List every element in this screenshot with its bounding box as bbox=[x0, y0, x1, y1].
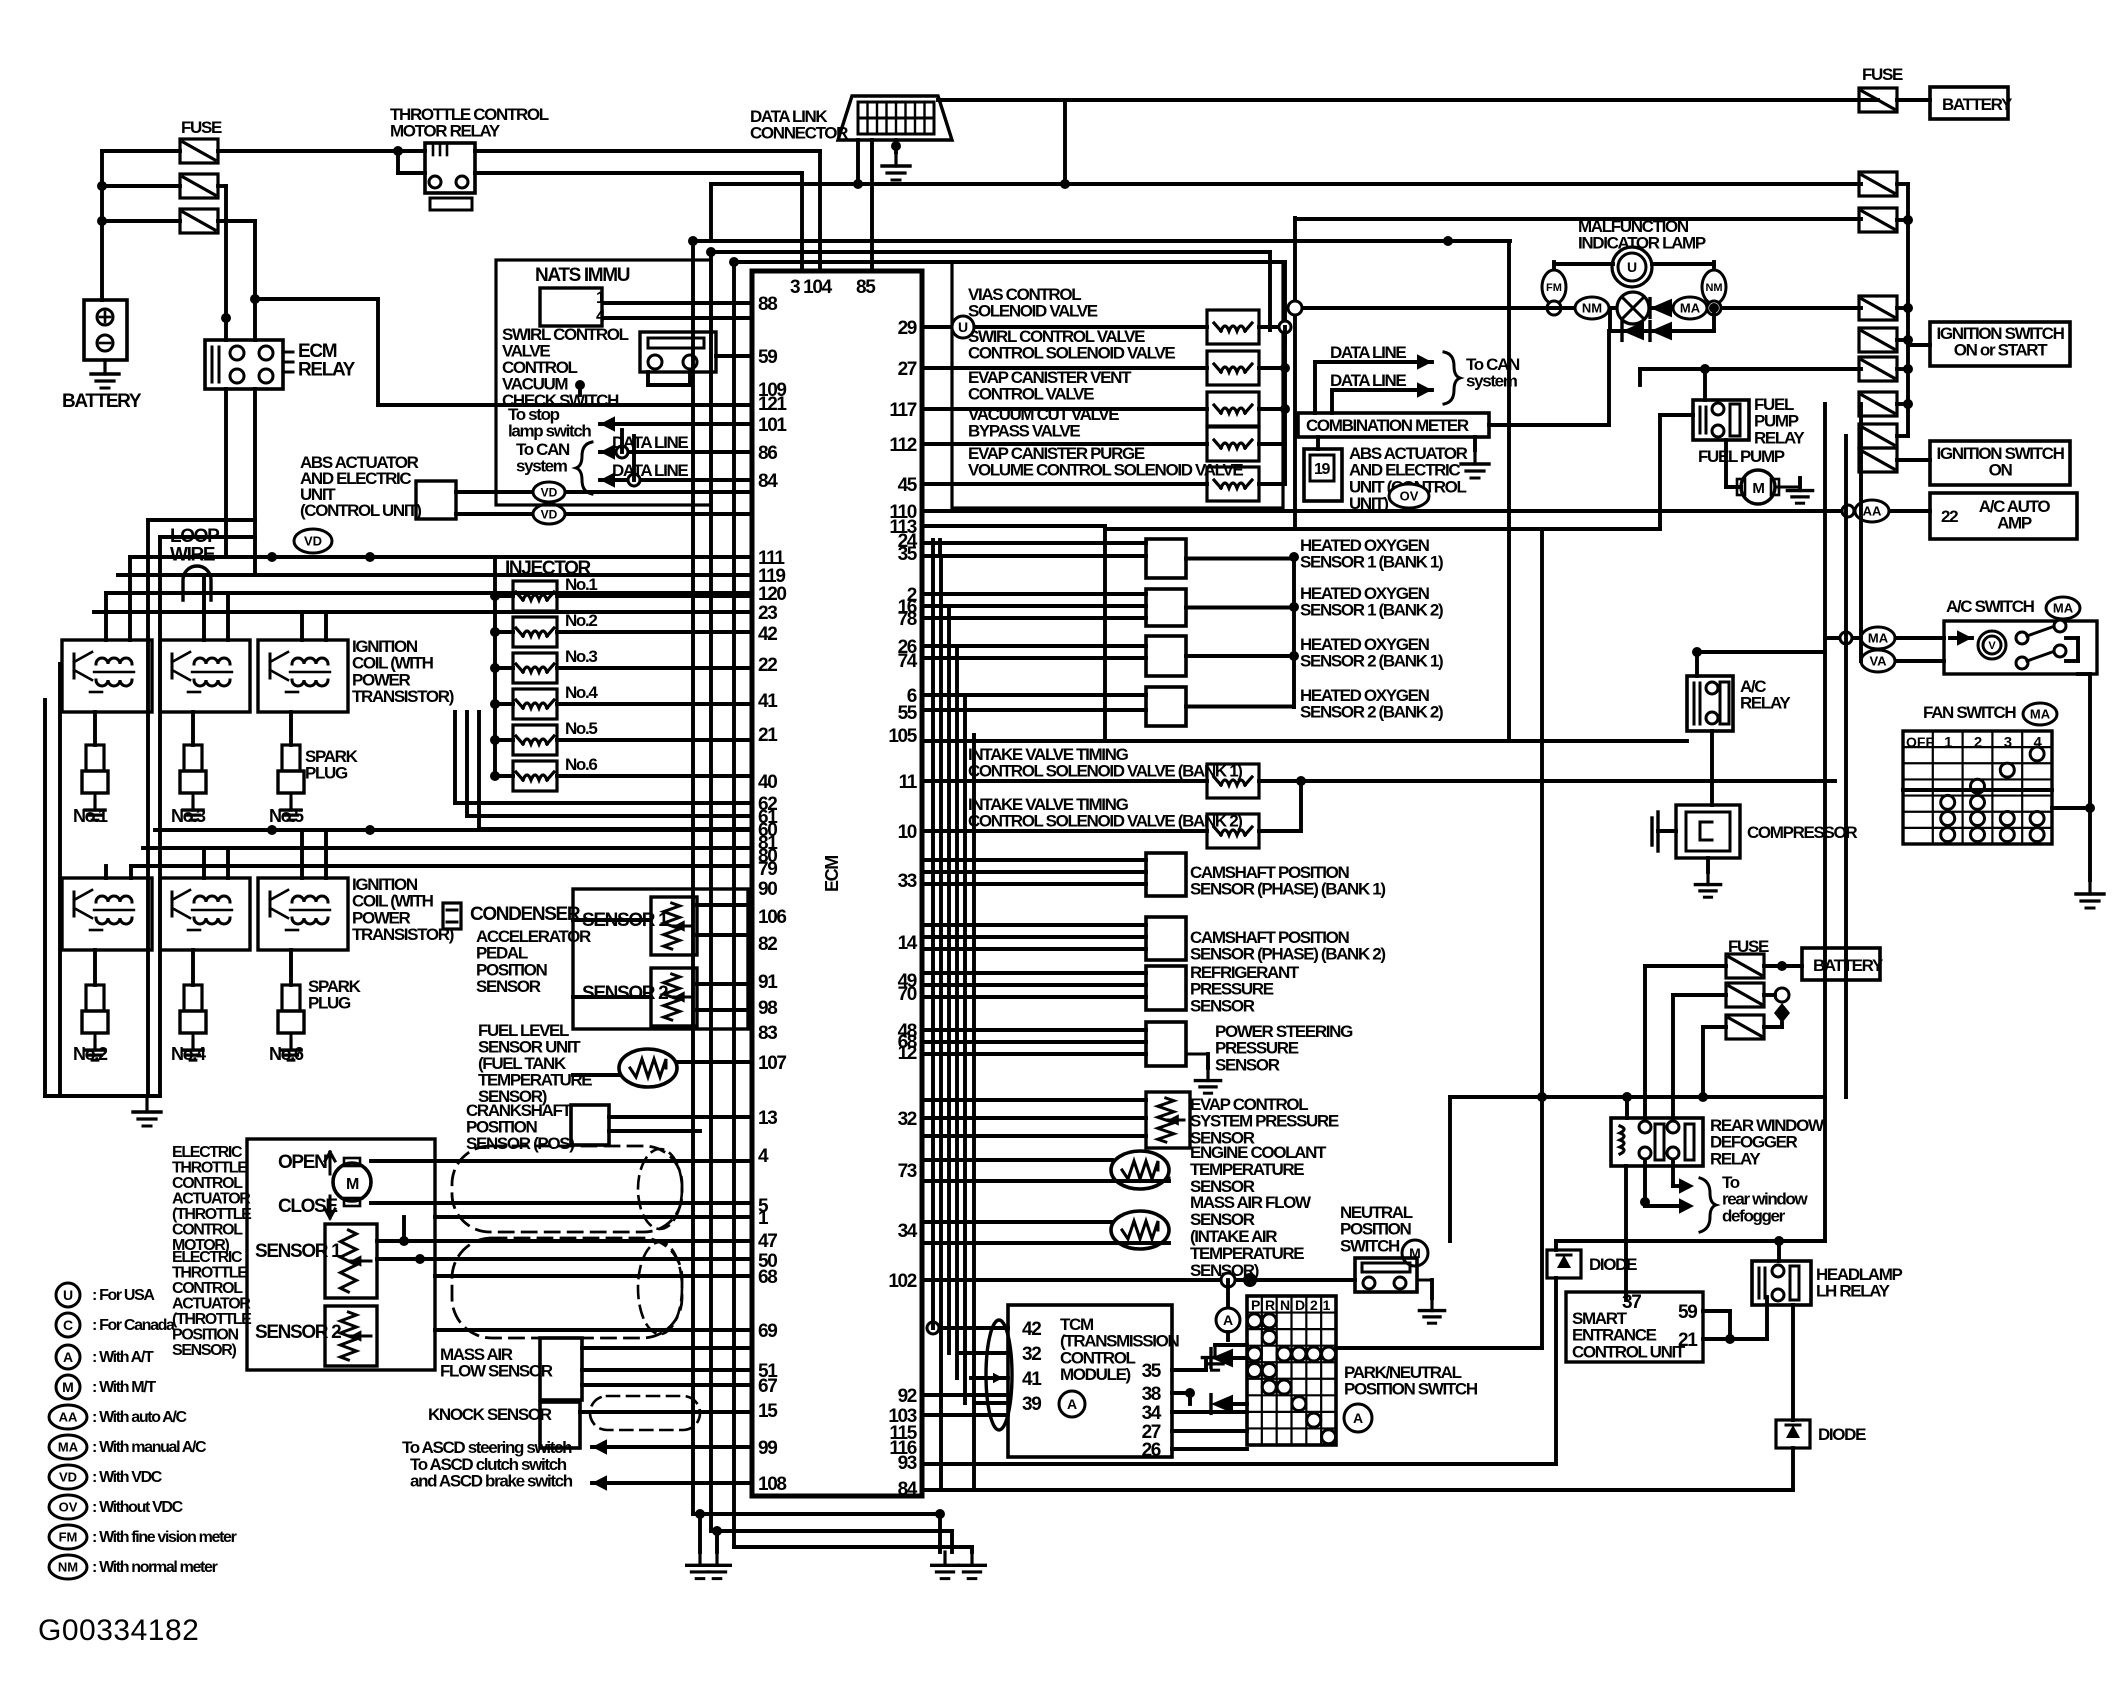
svg-text:SENSOR 2: SENSOR 2 bbox=[582, 983, 668, 1004]
svg-text:U: U bbox=[1627, 259, 1637, 275]
svg-text:SWITCH: SWITCH bbox=[1340, 1236, 1400, 1255]
svg-text:SENSOR (POS): SENSOR (POS) bbox=[466, 1134, 574, 1153]
svg-text:RELAY: RELAY bbox=[1710, 1149, 1761, 1168]
svg-text:No.3: No.3 bbox=[171, 806, 206, 826]
svg-text:: Without VDC: : Without VDC bbox=[92, 1499, 184, 1516]
svg-text:No.2: No.2 bbox=[73, 1044, 108, 1064]
svg-text:SENSOR: SENSOR bbox=[476, 977, 541, 996]
svg-text:101: 101 bbox=[758, 415, 787, 436]
svg-text:3: 3 bbox=[2004, 734, 2012, 751]
svg-text:No.5: No.5 bbox=[269, 806, 304, 826]
svg-text:83: 83 bbox=[758, 1023, 777, 1044]
svg-text:UNIT): UNIT) bbox=[1349, 494, 1388, 513]
svg-text:CONNECTOR: CONNECTOR bbox=[750, 124, 848, 143]
svg-text:FUSE: FUSE bbox=[1862, 65, 1903, 84]
svg-text:106: 106 bbox=[758, 907, 786, 928]
svg-text:29: 29 bbox=[898, 318, 917, 339]
svg-text:OV: OV bbox=[1400, 489, 1419, 504]
svg-text:12: 12 bbox=[898, 1043, 917, 1064]
svg-text:15: 15 bbox=[758, 1401, 778, 1422]
svg-text:13: 13 bbox=[758, 1108, 777, 1129]
svg-text:POSITION SWITCH: POSITION SWITCH bbox=[1344, 1380, 1478, 1399]
svg-text:M: M bbox=[1752, 480, 1764, 497]
svg-text:NM: NM bbox=[1705, 282, 1722, 294]
svg-text:SENSOR): SENSOR) bbox=[172, 1342, 236, 1359]
svg-text:40: 40 bbox=[758, 772, 777, 793]
svg-text:102: 102 bbox=[888, 1271, 916, 1292]
svg-text:SENSOR 1 (BANK 2): SENSOR 1 (BANK 2) bbox=[1300, 601, 1443, 620]
svg-text:CONDENSER: CONDENSER bbox=[470, 904, 581, 925]
svg-text:SENSOR 2 (BANK 1): SENSOR 2 (BANK 1) bbox=[1300, 652, 1443, 671]
svg-text:LH RELAY: LH RELAY bbox=[1816, 1282, 1891, 1301]
svg-text:112: 112 bbox=[889, 435, 916, 456]
svg-text:99: 99 bbox=[758, 1438, 777, 1459]
svg-text:42: 42 bbox=[758, 624, 777, 645]
svg-text:M: M bbox=[346, 1176, 359, 1193]
svg-text:MA: MA bbox=[2053, 601, 2074, 616]
svg-text:38: 38 bbox=[1142, 1384, 1161, 1405]
svg-text:TRANSISTOR): TRANSISTOR) bbox=[352, 925, 454, 944]
svg-text:ON or START: ON or START bbox=[1954, 341, 2048, 360]
svg-text:93: 93 bbox=[898, 1453, 917, 1474]
svg-text:CONTROL SOLENOID VALVE (BANK 1: CONTROL SOLENOID VALVE (BANK 1) bbox=[968, 762, 1242, 781]
svg-text:AA: AA bbox=[1863, 504, 1882, 519]
svg-text:: With fine vision meter: : With fine vision meter bbox=[92, 1529, 237, 1546]
svg-text:FAN SWITCH: FAN SWITCH bbox=[1923, 703, 2016, 722]
svg-text:78: 78 bbox=[898, 609, 917, 630]
svg-text:U: U bbox=[958, 319, 968, 335]
svg-text:(THROTTLE: (THROTTLE bbox=[172, 1311, 252, 1328]
svg-text:68: 68 bbox=[758, 1267, 777, 1288]
svg-text:DATA LINE: DATA LINE bbox=[1330, 343, 1406, 362]
svg-text:82: 82 bbox=[758, 934, 777, 955]
svg-text:AMP: AMP bbox=[1997, 514, 2032, 533]
svg-text:74: 74 bbox=[898, 651, 918, 672]
svg-text:POSITION: POSITION bbox=[172, 1327, 238, 1344]
svg-text:SENSOR 1 (BANK 1): SENSOR 1 (BANK 1) bbox=[1300, 553, 1443, 572]
svg-text:OPEN: OPEN bbox=[278, 1152, 327, 1173]
svg-text:FUSE: FUSE bbox=[181, 118, 222, 137]
svg-text:21: 21 bbox=[1678, 1330, 1698, 1351]
svg-text:10: 10 bbox=[898, 822, 917, 843]
svg-text:ACTUATOR: ACTUATOR bbox=[172, 1296, 251, 1313]
svg-text:MODULE): MODULE) bbox=[1060, 1365, 1131, 1384]
svg-text:11: 11 bbox=[899, 772, 918, 793]
svg-text:COMBINATION METER: COMBINATION METER bbox=[1306, 416, 1469, 435]
svg-text:SOLENOID VALVE: SOLENOID VALVE bbox=[968, 302, 1098, 321]
svg-text:THROTTLE: THROTTLE bbox=[172, 1265, 248, 1282]
svg-text:No.4: No.4 bbox=[565, 683, 598, 702]
svg-text:: With manual A/C: : With manual A/C bbox=[92, 1439, 207, 1456]
svg-text:19: 19 bbox=[1314, 461, 1331, 478]
svg-text:117: 117 bbox=[889, 400, 916, 421]
svg-text:VA: VA bbox=[1869, 654, 1887, 669]
svg-text:41: 41 bbox=[758, 691, 778, 712]
svg-text:ACTUATOR: ACTUATOR bbox=[172, 1191, 251, 1208]
svg-text:SENSOR 2 (BANK 2): SENSOR 2 (BANK 2) bbox=[1300, 703, 1443, 722]
svg-text:: With auto A/C: : With auto A/C bbox=[92, 1409, 187, 1426]
svg-text:and ASCD brake switch: and ASCD brake switch bbox=[410, 1472, 573, 1491]
svg-text:121: 121 bbox=[758, 394, 787, 415]
svg-text:MOTOR RELAY: MOTOR RELAY bbox=[390, 122, 501, 141]
svg-text:NM: NM bbox=[1582, 301, 1602, 316]
svg-text:BATTERY: BATTERY bbox=[1942, 95, 2013, 114]
svg-text:A: A bbox=[63, 1349, 73, 1365]
svg-text:VD: VD bbox=[304, 534, 322, 549]
svg-text:DATA LINE: DATA LINE bbox=[1330, 371, 1406, 390]
svg-text:: With M/T: : With M/T bbox=[92, 1379, 156, 1396]
svg-text:VD: VD bbox=[541, 485, 558, 499]
svg-text:DIODE: DIODE bbox=[1589, 1255, 1637, 1274]
svg-text:NM: NM bbox=[58, 1560, 78, 1575]
svg-text:C: C bbox=[63, 1317, 73, 1333]
svg-text:107: 107 bbox=[758, 1053, 786, 1074]
svg-text:No.2: No.2 bbox=[565, 611, 597, 630]
svg-text:CONTROL: CONTROL bbox=[172, 1280, 243, 1297]
svg-text:VD: VD bbox=[59, 1470, 77, 1485]
svg-text:lamp switch: lamp switch bbox=[508, 422, 591, 441]
svg-text:ON: ON bbox=[1989, 461, 2013, 480]
svg-text:SENSOR 2: SENSOR 2 bbox=[255, 1322, 341, 1343]
svg-text:CONTROL VALVE: CONTROL VALVE bbox=[968, 385, 1094, 404]
svg-text:(THROTTLE: (THROTTLE bbox=[172, 1206, 252, 1223]
svg-text:A: A bbox=[1223, 1312, 1233, 1328]
svg-text:RELAY: RELAY bbox=[1740, 694, 1791, 713]
svg-text:M: M bbox=[62, 1379, 74, 1395]
svg-text:AA: AA bbox=[59, 1410, 78, 1425]
svg-text:32: 32 bbox=[1022, 1344, 1041, 1365]
svg-text:86: 86 bbox=[758, 443, 777, 464]
svg-text:A: A bbox=[1353, 1410, 1363, 1426]
svg-text:DATA LINE: DATA LINE bbox=[612, 461, 688, 480]
svg-text:22: 22 bbox=[1941, 507, 1958, 526]
svg-text:84: 84 bbox=[898, 1479, 918, 1500]
svg-text:BATTERY: BATTERY bbox=[1813, 956, 1884, 975]
svg-text:SENSOR (PHASE) (BANK 1): SENSOR (PHASE) (BANK 1) bbox=[1190, 880, 1385, 899]
svg-text:MA: MA bbox=[2030, 707, 2051, 722]
svg-text:26: 26 bbox=[1142, 1440, 1161, 1461]
svg-text:THROTTLE: THROTTLE bbox=[172, 1160, 248, 1177]
svg-text:NATS IMMU: NATS IMMU bbox=[535, 265, 630, 286]
svg-text:23: 23 bbox=[758, 603, 777, 624]
svg-text:47: 47 bbox=[758, 1231, 777, 1252]
svg-text:ECM: ECM bbox=[822, 856, 842, 892]
svg-text:No.5: No.5 bbox=[565, 719, 597, 738]
svg-text:3 104: 3 104 bbox=[790, 277, 833, 298]
svg-text:A: A bbox=[1067, 1396, 1077, 1412]
svg-text:SENSOR: SENSOR bbox=[1215, 1055, 1280, 1074]
svg-text:: With normal meter: : With normal meter bbox=[92, 1559, 218, 1576]
svg-text:PLUG: PLUG bbox=[308, 994, 351, 1013]
svg-text:1: 1 bbox=[1944, 734, 1952, 751]
svg-text:No.3: No.3 bbox=[565, 647, 597, 666]
svg-text:VD: VD bbox=[541, 507, 558, 521]
svg-text:73: 73 bbox=[898, 1161, 917, 1182]
svg-text:32: 32 bbox=[898, 1109, 917, 1130]
svg-text:ELECTRIC: ELECTRIC bbox=[172, 1144, 243, 1161]
svg-text:CONTROL: CONTROL bbox=[172, 1175, 243, 1192]
svg-text:U: U bbox=[63, 1287, 73, 1303]
svg-text:CONTROL UNIT: CONTROL UNIT bbox=[1572, 1342, 1686, 1361]
svg-text:88: 88 bbox=[758, 294, 777, 315]
svg-text:CONTROL SOLENOID VALVE (BANK 2: CONTROL SOLENOID VALVE (BANK 2) bbox=[968, 812, 1242, 831]
svg-text:No.1: No.1 bbox=[565, 575, 597, 594]
svg-text:No.6: No.6 bbox=[269, 1044, 304, 1064]
svg-text:: With VDC: : With VDC bbox=[92, 1469, 163, 1486]
svg-text:45: 45 bbox=[898, 475, 918, 496]
svg-text:defogger: defogger bbox=[1722, 1206, 1786, 1225]
svg-text:27: 27 bbox=[898, 359, 917, 380]
svg-text:TRANSISTOR): TRANSISTOR) bbox=[352, 687, 454, 706]
svg-text:120: 120 bbox=[758, 584, 786, 605]
svg-text:DIODE: DIODE bbox=[1818, 1425, 1866, 1444]
svg-text:(CONTROL UNIT): (CONTROL UNIT) bbox=[300, 501, 421, 520]
svg-text:A/C SWITCH: A/C SWITCH bbox=[1946, 597, 2035, 616]
svg-text:55: 55 bbox=[898, 703, 918, 724]
svg-text:105: 105 bbox=[888, 726, 917, 747]
svg-text:COMPRESSOR: COMPRESSOR bbox=[1747, 823, 1857, 842]
svg-text:system: system bbox=[516, 457, 568, 476]
svg-text:No.4: No.4 bbox=[171, 1044, 206, 1064]
svg-text:14: 14 bbox=[898, 933, 918, 954]
svg-text:70: 70 bbox=[898, 984, 917, 1005]
svg-text:MA: MA bbox=[58, 1440, 79, 1455]
svg-text:BATTERY: BATTERY bbox=[62, 391, 142, 412]
svg-text:79: 79 bbox=[758, 859, 777, 880]
svg-text:35: 35 bbox=[1142, 1361, 1162, 1382]
svg-text:2: 2 bbox=[1974, 734, 1982, 751]
svg-text:22: 22 bbox=[758, 655, 777, 676]
svg-text:42: 42 bbox=[1022, 1319, 1041, 1340]
svg-text:FM: FM bbox=[1546, 282, 1562, 294]
svg-text:KNOCK SENSOR: KNOCK SENSOR bbox=[428, 1405, 552, 1424]
svg-text:34: 34 bbox=[1142, 1403, 1162, 1424]
svg-text:BYPASS VALVE: BYPASS VALVE bbox=[968, 422, 1080, 441]
svg-text:90: 90 bbox=[758, 879, 777, 900]
svg-text:: With A/T: : With A/T bbox=[92, 1349, 154, 1366]
svg-text:CONTROL SOLENOID VALVE: CONTROL SOLENOID VALVE bbox=[968, 344, 1175, 363]
svg-text:RELAY: RELAY bbox=[1754, 428, 1805, 447]
svg-text:No.1: No.1 bbox=[73, 806, 108, 826]
svg-text:G00334182: G00334182 bbox=[38, 1614, 199, 1647]
svg-text:V: V bbox=[1988, 640, 1996, 652]
svg-text:35: 35 bbox=[898, 544, 918, 565]
svg-text:RELAY: RELAY bbox=[298, 360, 356, 381]
svg-text:59: 59 bbox=[758, 347, 777, 368]
svg-text:59: 59 bbox=[1678, 1302, 1697, 1323]
svg-text:21: 21 bbox=[758, 725, 778, 746]
svg-text:85: 85 bbox=[856, 277, 876, 298]
svg-text:39: 39 bbox=[1022, 1394, 1041, 1415]
svg-text:SENSOR (PHASE) (BANK 2): SENSOR (PHASE) (BANK 2) bbox=[1190, 945, 1385, 964]
svg-text:: For Canada: : For Canada bbox=[92, 1317, 175, 1334]
svg-text:34: 34 bbox=[898, 1221, 918, 1242]
svg-text:33: 33 bbox=[898, 871, 917, 892]
svg-text:FM: FM bbox=[59, 1530, 78, 1545]
svg-text:67: 67 bbox=[758, 1376, 777, 1397]
svg-text:108: 108 bbox=[758, 1474, 786, 1495]
svg-text:84: 84 bbox=[758, 471, 778, 492]
svg-text:41: 41 bbox=[1022, 1369, 1042, 1390]
svg-text:SENSOR: SENSOR bbox=[1190, 996, 1255, 1015]
svg-text:91: 91 bbox=[758, 972, 778, 993]
svg-text:: For USA: : For USA bbox=[92, 1287, 155, 1304]
svg-text:MA: MA bbox=[1868, 631, 1889, 646]
svg-text:FLOW SENSOR: FLOW SENSOR bbox=[440, 1362, 553, 1381]
svg-text:FUEL PUMP: FUEL PUMP bbox=[1698, 447, 1785, 466]
svg-text:CONTROL: CONTROL bbox=[172, 1222, 243, 1239]
svg-text:69: 69 bbox=[758, 1321, 777, 1342]
svg-text:SENSOR 1: SENSOR 1 bbox=[255, 1241, 342, 1262]
svg-text:system: system bbox=[1466, 372, 1518, 391]
svg-text:No.6: No.6 bbox=[565, 755, 597, 774]
svg-text:98: 98 bbox=[758, 998, 777, 1019]
svg-text:92: 92 bbox=[898, 1386, 917, 1407]
svg-text:OV: OV bbox=[59, 1500, 78, 1515]
svg-text:MA: MA bbox=[1680, 301, 1701, 316]
svg-text:PLUG: PLUG bbox=[305, 764, 348, 783]
svg-text:VOLUME CONTROL SOLENOID VALVE: VOLUME CONTROL SOLENOID VALVE bbox=[968, 461, 1243, 480]
svg-text:ELECTRIC: ELECTRIC bbox=[172, 1249, 243, 1266]
